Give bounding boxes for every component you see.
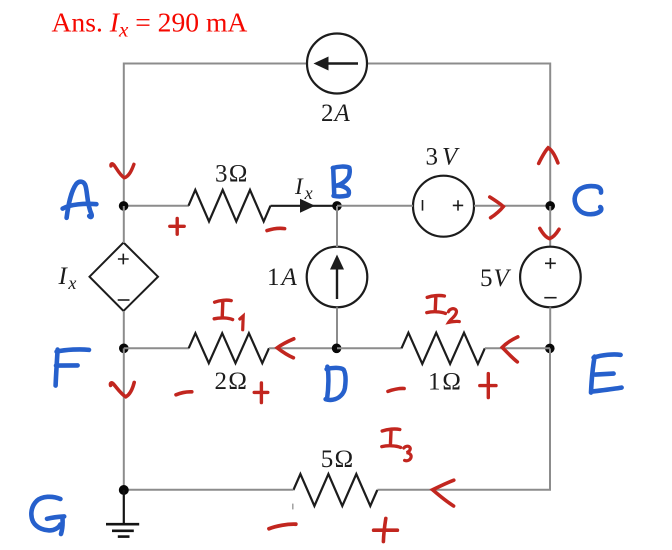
blue node letter D xyxy=(326,367,346,400)
svg-text:Ix: Ix xyxy=(294,174,313,203)
label 2A xyxy=(321,100,351,127)
answer label Ans. Ix = 290 mA xyxy=(52,6,248,41)
resistor 1ohm xyxy=(402,333,485,364)
svg-text:5Ω: 5Ω xyxy=(321,446,354,473)
wire diamond to F xyxy=(123,311,125,348)
label 2ohm xyxy=(215,368,248,395)
svg-text:1A: 1A xyxy=(267,264,298,291)
svg-text:2Ω: 2Ω xyxy=(215,368,248,395)
red minus under 1-ohm xyxy=(388,388,404,391)
svg-text:3V: 3V xyxy=(426,143,461,170)
wire F to 2-ohm xyxy=(124,347,189,349)
red plus under 2-ohm xyxy=(254,383,268,403)
red minus under 3-ohm right xyxy=(267,228,285,230)
label 3V xyxy=(426,143,461,170)
resistor 2ohm xyxy=(189,333,269,363)
wire B to 1A xyxy=(336,206,338,247)
node G xyxy=(119,485,129,495)
red arrow left at 1-ohm xyxy=(502,337,518,362)
red minus under 5-ohm xyxy=(269,524,296,529)
wire F to G xyxy=(123,348,125,490)
red chevron arrow above node A xyxy=(111,164,134,178)
red minus under 2-ohm xyxy=(176,392,192,395)
label 1ohm xyxy=(428,368,461,395)
label 5ohm xyxy=(321,446,354,473)
svg-text:3Ω: 3Ω xyxy=(215,161,248,188)
wire A to diamond xyxy=(123,206,125,243)
red label I2 xyxy=(427,295,460,322)
node C xyxy=(545,201,555,211)
blue node letter E xyxy=(591,354,622,392)
ground xyxy=(106,490,139,537)
current source 1A xyxy=(307,247,368,308)
wire 3V to C xyxy=(474,205,550,207)
label 5V xyxy=(480,265,512,292)
resistor 3ohm xyxy=(189,190,271,222)
wire B to 3V xyxy=(337,205,413,207)
wire top right horizontal xyxy=(367,63,550,65)
label Ix at arrow xyxy=(294,174,313,203)
current source 2A xyxy=(307,34,367,94)
voltage source 5V xyxy=(520,247,581,308)
wire 1-ohm to E xyxy=(485,347,550,349)
wire E down right side xyxy=(377,349,550,490)
label Ix at diamond xyxy=(58,263,77,293)
blue node letter B xyxy=(333,167,350,197)
node F xyxy=(119,344,129,354)
red plus under 1-ohm xyxy=(480,374,496,398)
wire 3-ohm to B with Ix arrow xyxy=(271,199,338,213)
node B xyxy=(332,201,342,211)
svg-text:1Ω: 1Ω xyxy=(428,368,461,395)
svg-text:5V: 5V xyxy=(480,265,512,292)
node A xyxy=(119,201,129,211)
red label I3 xyxy=(382,429,411,461)
red plus under 3-ohm left xyxy=(170,218,184,234)
voltage source 3V xyxy=(413,176,474,237)
wire D to 1-ohm xyxy=(337,347,402,349)
red arrow right of 3V xyxy=(490,197,504,218)
stray mark tick xyxy=(292,504,294,510)
wire 5-ohm to G xyxy=(124,489,294,491)
wire C to 5V xyxy=(549,206,551,247)
red chevron below F xyxy=(110,382,134,396)
wire 5V to E xyxy=(549,307,551,348)
red arrow left on bottom wire xyxy=(433,480,454,506)
dependent source diamond Ix xyxy=(90,243,159,312)
wire 1A to D xyxy=(336,307,338,348)
wire right vertical top-to-C xyxy=(549,63,551,207)
svg-text:2A: 2A xyxy=(321,100,351,127)
red arrow left at 2-ohm xyxy=(277,339,294,358)
label 3ohm xyxy=(215,161,248,188)
blue node letter C xyxy=(575,186,602,214)
red plus under 5-ohm xyxy=(374,518,398,541)
red chevron down below C xyxy=(540,228,559,238)
wire top left horizontal xyxy=(124,63,307,65)
red chevron up above C xyxy=(539,148,558,164)
wire left vertical A-to-top xyxy=(123,63,125,206)
red label I1 xyxy=(214,300,243,330)
label 1A xyxy=(267,264,298,291)
resistor 5ohm xyxy=(293,474,377,506)
wire A to 3-ohm xyxy=(124,205,189,207)
svg-text:Ix: Ix xyxy=(58,263,77,293)
node E xyxy=(545,344,555,354)
blue node letter G xyxy=(31,497,64,534)
blue node letter A xyxy=(63,182,97,218)
node D xyxy=(332,344,342,354)
wire 2-ohm to D xyxy=(269,347,337,349)
blue node letter F xyxy=(56,349,89,385)
svg-text:Ans. Ix = 290 mA: Ans. Ix = 290 mA xyxy=(52,6,248,41)
